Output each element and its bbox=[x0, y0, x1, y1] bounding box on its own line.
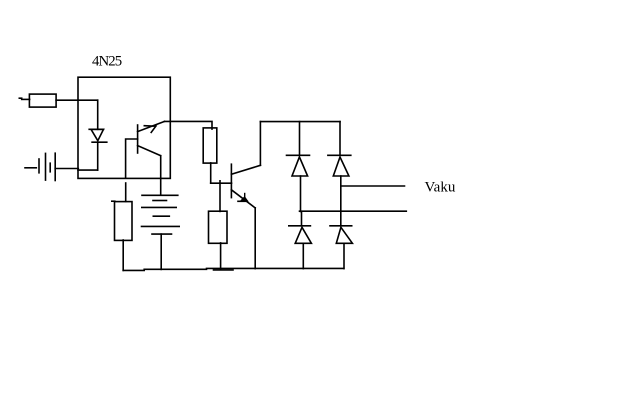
wire D2 down right column bbox=[340, 176, 342, 226]
wire top rail bbox=[260, 121, 340, 123]
battery B2 bbox=[142, 194, 178, 196]
wire top rail to D2 bbox=[339, 122, 341, 156]
wire mid rail (output 2) bbox=[300, 210, 407, 212]
ground rail wire bbox=[123, 269, 144, 271]
wire D4 to ground rail bbox=[343, 243, 345, 268]
diode D3 bbox=[289, 225, 311, 227]
wire R1 to LED anode bbox=[56, 99, 98, 101]
wire Q2 emitter to ground rail bbox=[254, 208, 256, 269]
phototransistor Q1 arrow bbox=[144, 126, 156, 133]
wire LED anode vertical bbox=[97, 100, 99, 129]
wire D1 to mid rail bbox=[300, 176, 302, 212]
wire base node to R3 bbox=[219, 181, 221, 212]
LED diode D5 bbox=[89, 128, 103, 130]
wire Q1 emitter to battery B2 bbox=[160, 156, 162, 196]
wire R2 to base node bbox=[210, 163, 212, 183]
wire output 1 bbox=[341, 185, 405, 187]
transistor Q2 collector diagonal bbox=[231, 165, 260, 174]
resistor R3 bbox=[209, 211, 228, 243]
wire Q2 collector to top rail bbox=[259, 122, 261, 166]
phototransistor Q1 emitter diagonal bbox=[138, 146, 161, 156]
transistor Q2 base bar bbox=[230, 164, 232, 197]
wire D3 to ground rail bbox=[302, 243, 304, 268]
optocoupler U1 4N25 box bbox=[78, 77, 170, 178]
transistor Q2 emitter diagonal bbox=[231, 190, 255, 208]
phototransistor Q1 base bar bbox=[137, 125, 139, 153]
diode D2 bbox=[328, 154, 351, 156]
wire Q1 collector to R2 bbox=[165, 121, 213, 129]
transistor Q2 emitter arrow bbox=[238, 200, 247, 202]
input terminal bbox=[19, 97, 21, 99]
wire mid rail to D3 bbox=[301, 212, 303, 226]
phototransistor Q1 collector diagonal bbox=[138, 121, 165, 131]
resistor R2 bbox=[203, 128, 217, 163]
wire input to R1 bbox=[22, 98, 30, 100]
wire box edge to LED cathode bbox=[78, 169, 98, 171]
wire Q1 base to pin 6 stub bbox=[126, 139, 138, 178]
resistor R4 bbox=[112, 200, 115, 202]
wire R3 to ground rail bbox=[220, 243, 222, 269]
svg-text:Vaku: Vaku bbox=[425, 180, 456, 196]
wire R4 to ground rail bbox=[122, 240, 124, 270]
diode D4 bbox=[330, 225, 352, 227]
svg-text:4N25: 4N25 bbox=[92, 54, 122, 70]
battery B1 bbox=[38, 159, 40, 173]
wire top rail to D1 bbox=[299, 122, 301, 156]
wire base node to Q2 base bbox=[211, 182, 232, 184]
wire battery B1 to box edge bbox=[55, 168, 78, 170]
wire battery B2 to ground rail bbox=[160, 234, 162, 269]
diode D1 bbox=[287, 154, 310, 156]
battery B1 left lead bbox=[25, 167, 36, 169]
resistor R1 bbox=[29, 94, 56, 107]
wire LED cathode vertical bbox=[97, 142, 99, 170]
